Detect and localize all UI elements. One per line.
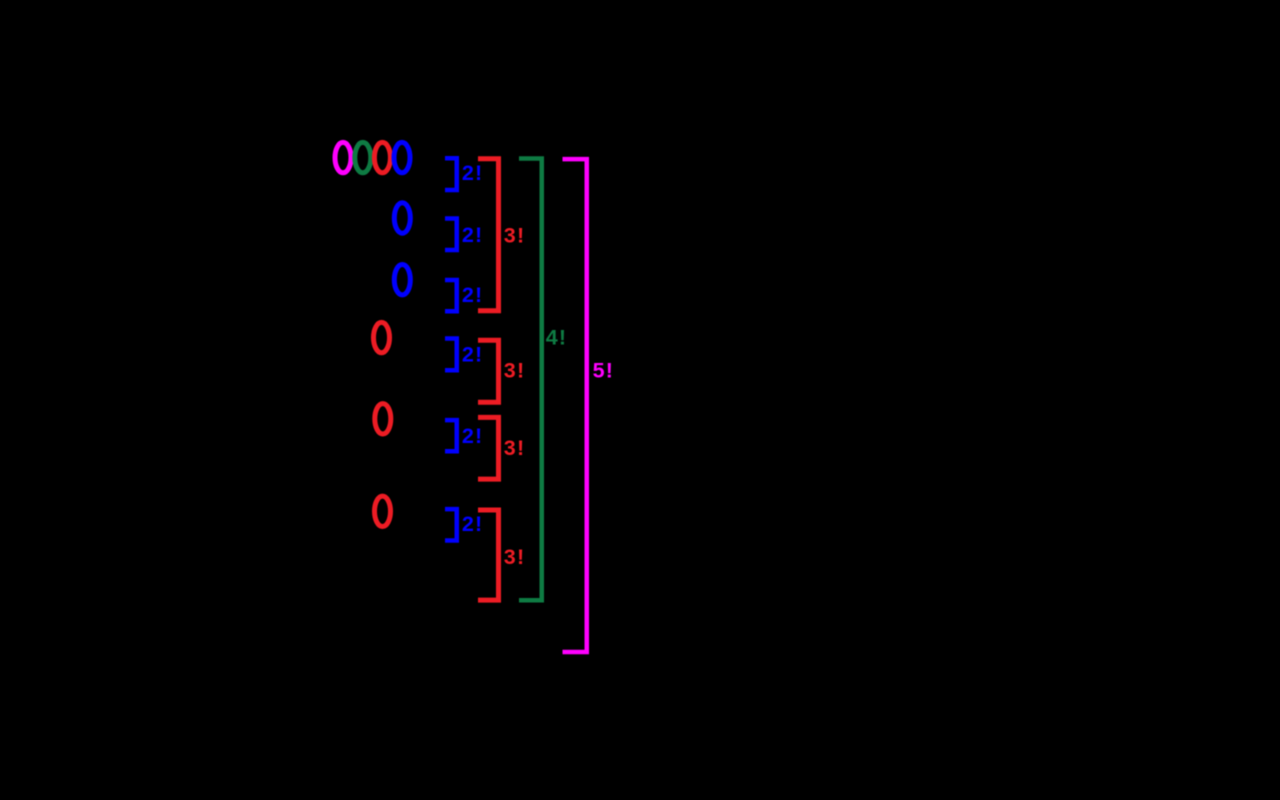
svg-text:3!: 3!	[504, 436, 526, 460]
svg-text:2!: 2!	[462, 512, 484, 536]
svg-text:5!: 5!	[593, 359, 615, 383]
svg-text:2!: 2!	[462, 161, 484, 185]
svg-text:2!: 2!	[462, 283, 484, 307]
svg-text:3!: 3!	[504, 359, 526, 383]
svg-text:2!: 2!	[462, 343, 484, 367]
svg-text:4!: 4!	[546, 325, 568, 349]
svg-text:3!: 3!	[504, 545, 526, 569]
svg-text:2!: 2!	[462, 424, 484, 448]
svg-text:3!: 3!	[504, 224, 526, 248]
svg-text:2!: 2!	[462, 223, 484, 247]
